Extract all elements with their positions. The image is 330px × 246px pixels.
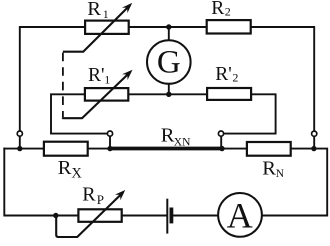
junction <box>311 146 316 151</box>
wire <box>224 94 276 133</box>
wire <box>51 94 107 133</box>
svg-text:G: G <box>157 45 181 81</box>
resistor RN body <box>247 142 291 156</box>
wire <box>130 26 206 28</box>
wire <box>123 215 166 217</box>
resistor R1 body <box>85 21 129 34</box>
wire <box>173 215 217 217</box>
svg-text:RP: RP <box>82 184 104 207</box>
wire <box>19 137 21 149</box>
svg-text:RN: RN <box>262 158 285 181</box>
terminal <box>218 131 223 136</box>
resistor RX body <box>44 142 88 156</box>
wire <box>168 84 170 95</box>
junction <box>219 146 224 151</box>
wire <box>222 148 246 150</box>
resistor RP body <box>78 209 121 222</box>
resistor R2 body <box>207 20 251 33</box>
junction <box>166 24 171 29</box>
svg-text:RX: RX <box>58 157 83 181</box>
wire <box>129 93 206 95</box>
wire <box>89 148 110 150</box>
wire <box>313 137 315 149</box>
wire <box>263 149 327 216</box>
arrow of rheostat R1 <box>63 5 130 52</box>
wire <box>4 149 77 216</box>
svg-text:RXN: RXN <box>161 124 191 148</box>
wire <box>4 148 43 150</box>
dashed gang link <box>62 53 64 118</box>
resistor R'2 body <box>207 88 251 100</box>
junction <box>166 92 171 97</box>
wire <box>109 136 111 148</box>
wire <box>220 136 222 148</box>
svg-text:R'1: R'1 <box>88 65 110 86</box>
junction <box>53 213 58 218</box>
arrow of rheostat R'1 <box>63 72 131 119</box>
thick yoke wire RXN <box>110 147 222 151</box>
junction <box>17 146 22 151</box>
battery short plate <box>169 208 173 224</box>
junction <box>107 146 112 151</box>
terminal <box>17 131 22 136</box>
galvanometer G <box>147 40 191 84</box>
wire <box>168 27 170 40</box>
svg-text:A: A <box>227 195 253 235</box>
terminal <box>107 131 112 136</box>
wire <box>252 27 314 131</box>
svg-text:R2: R2 <box>211 0 231 19</box>
svg-text:R1: R1 <box>87 0 109 21</box>
wire <box>20 27 85 131</box>
terminal <box>312 131 317 136</box>
svg-text:R'2: R'2 <box>215 64 238 85</box>
arrow of rheostat RP <box>56 192 123 237</box>
battery long plate <box>166 199 168 234</box>
ammeter A <box>218 193 262 237</box>
resistor R'1 body <box>85 88 128 101</box>
